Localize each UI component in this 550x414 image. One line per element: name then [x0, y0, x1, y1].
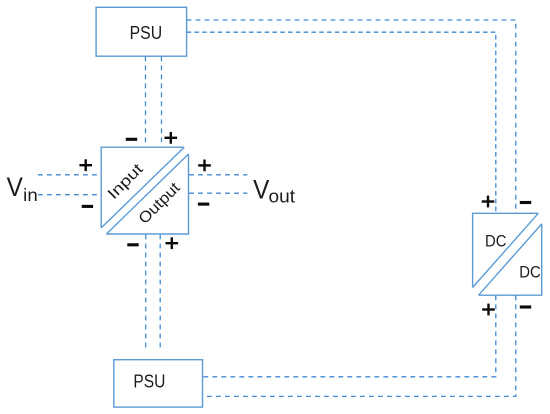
- PSU U1 (top power supply unit): [96, 7, 187, 56]
- polarity - (DC/DC bottom right): [520, 305, 531, 308]
- wire converter bottom right: [159, 235, 161, 352]
- polarity + (Vin upper): [79, 159, 92, 171]
- svg-text:DC: DC: [519, 262, 541, 281]
- polarity + (Vout upper): [198, 160, 211, 172]
- wire DC/DC negative to PSU2: [203, 295, 516, 396]
- polarity - (converter bottom left): [127, 243, 138, 246]
- svg-text:out: out: [269, 187, 296, 207]
- polarity - (DC/DC top right): [520, 201, 531, 204]
- converter U4 (DC/DC converter): [473, 213, 542, 295]
- converter U3 (input/output DC converter symbol): [101, 147, 188, 234]
- wire Vout positive: [189, 174, 247, 176]
- svg-text:V: V: [253, 175, 269, 205]
- polarity - (Vout lower): [198, 203, 209, 206]
- wire Vin negative: [38, 194, 101, 196]
- polarity - (converter top left): [126, 138, 137, 141]
- svg-text:V: V: [7, 172, 23, 202]
- wire converter bottom left: [145, 235, 147, 352]
- PSU U2 (bottom power supply unit): [114, 360, 203, 407]
- svg-text:DC: DC: [485, 232, 507, 251]
- polarity + (converter bottom right): [166, 237, 179, 249]
- polarity + (DC/DC top left): [482, 196, 495, 208]
- wire Vin positive: [38, 174, 101, 176]
- svg-text:in: in: [23, 185, 38, 205]
- polarity + (DC/DC bottom left): [482, 304, 495, 316]
- polarity + (converter top right): [165, 132, 178, 144]
- wire PSU1 down right: [161, 56, 163, 146]
- wire Vout negative: [189, 192, 247, 194]
- wire PSU1 to DC/DC negative: [187, 20, 516, 213]
- wire PSU1 to DC/DC positive: [187, 32, 496, 213]
- svg-text:PSU: PSU: [130, 23, 163, 43]
- svg-text:PSU: PSU: [133, 371, 165, 391]
- polarity - (Vin lower): [82, 205, 93, 208]
- wire DC/DC positive to PSU2: [203, 295, 496, 376]
- wire PSU1 down left: [145, 56, 147, 146]
